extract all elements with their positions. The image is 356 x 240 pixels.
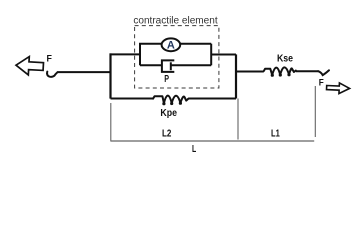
wire inner loop to right node bar: [211, 54, 236, 56]
dimension line L2 left (vertical): [110, 103, 112, 141]
spring Kse: [264, 67, 296, 74]
dimension line L (horizontal): [111, 140, 315, 142]
damper P cup: [162, 60, 174, 72]
inner loop top wire (right of A): [180, 43, 211, 45]
dashed box (contractile element boundary): [135, 26, 219, 88]
svg-text:A: A: [167, 40, 175, 52]
svg-text:contractile element: contractile element: [133, 15, 218, 26]
damper piston: [170, 62, 172, 70]
svg-text:Kse: Kse: [277, 52, 293, 64]
hook (right attachment, v-shape): [318, 70, 329, 75]
wire bottom-left to spring Kpe: [111, 98, 154, 100]
active element A (circle): [162, 38, 181, 51]
wire spring Kse to right hook: [296, 70, 319, 72]
svg-text:L1: L1: [271, 128, 280, 140]
node bar left (outer parallel junction): [109, 53, 111, 98]
wire spring Kpe to right node bar: [188, 98, 236, 100]
inner loop top wire (left of A): [139, 43, 162, 45]
force arrow F (left, block arrow pointing left): [16, 56, 44, 76]
spring Kpe: [153, 96, 188, 104]
damper rod (right): [171, 64, 211, 66]
wire right node to spring Kse: [236, 71, 264, 73]
node bar right: [235, 54, 237, 98]
inner loop right bar: [210, 44, 212, 66]
svg-text:L2: L2: [162, 127, 172, 139]
inner loop left bar: [139, 44, 141, 66]
svg-text:F: F: [47, 53, 53, 64]
dimension line middle (vertical): [237, 99, 239, 140]
force arrow F (right, block arrow pointing right): [326, 82, 349, 94]
svg-text:Kpe: Kpe: [160, 107, 177, 119]
dimension line right (vertical): [314, 86, 316, 137]
hook (left attachment) + wire to node: [47, 72, 110, 77]
wire top-left into inner loop: [110, 53, 141, 55]
svg-text:P: P: [164, 74, 169, 85]
svg-text:L: L: [192, 144, 196, 155]
damper rod (left): [140, 64, 161, 66]
svg-text:F: F: [319, 78, 324, 89]
